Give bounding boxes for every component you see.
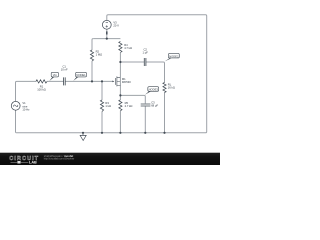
resistor R4 bbox=[119, 42, 122, 53]
node supply T junction bbox=[106, 38, 108, 40]
node R5 rail junction bbox=[119, 132, 121, 134]
wire R2 column bbox=[92, 39, 93, 82]
resistor R3 bbox=[100, 100, 103, 112]
node drain junction bbox=[119, 61, 121, 63]
flag NODE2 bbox=[165, 58, 172, 61]
wire drain branch to C2 bbox=[120, 61, 144, 63]
resistor R5 bbox=[119, 100, 122, 111]
node R3/signal junction bbox=[101, 80, 103, 82]
svg-text:2.7 kΩ: 2.7 kΩ bbox=[125, 104, 133, 108]
svg-text:Vin: Vin bbox=[53, 73, 58, 77]
svg-text:1 kΩ: 1 kΩ bbox=[105, 104, 111, 108]
resistor R1 bbox=[36, 80, 47, 83]
svg-text:NODE2: NODE2 bbox=[169, 54, 179, 58]
resistor R2 bbox=[90, 50, 93, 61]
svg-text:10 Hz: 10 Hz bbox=[22, 107, 30, 111]
wire C2 to NODE2 corner down to RL bbox=[146, 62, 165, 83]
svg-text:NODE3: NODE3 bbox=[149, 88, 159, 92]
wire R5 bottom to rail bbox=[119, 111, 121, 133]
wire R4/drain column bbox=[119, 53, 121, 78]
resistor RL bbox=[163, 83, 166, 93]
node C3 rail junction bbox=[144, 132, 146, 134]
svg-text:NODE1: NODE1 bbox=[76, 73, 86, 77]
watermark bar bbox=[0, 153, 220, 165]
wire RL bottom to rail bbox=[164, 93, 166, 133]
svg-text:IRF530: IRF530 bbox=[122, 80, 131, 84]
wire supply node horizontal bbox=[93, 38, 120, 40]
wire signal line mid segment bbox=[47, 80, 63, 82]
wire V3 bottom stem bbox=[106, 29, 108, 38]
node R3 rail junction bbox=[101, 132, 103, 134]
V3 terminal blob bbox=[106, 31, 108, 34]
node source junction bbox=[119, 94, 121, 96]
svg-text:100 kΩ: 100 kΩ bbox=[37, 88, 46, 92]
capacitor C1 bbox=[64, 77, 66, 85]
wire bottom rail bbox=[17, 132, 206, 134]
ground bbox=[80, 133, 86, 141]
source V1 bbox=[11, 101, 20, 110]
source V3 bbox=[102, 20, 111, 29]
svg-text:1 μF: 1 μF bbox=[142, 50, 148, 54]
mosfet M1 bbox=[114, 78, 116, 85]
wire M1 source column bbox=[119, 85, 121, 100]
wire signal line right segment to gate bbox=[66, 80, 113, 82]
node ground junction bbox=[82, 132, 84, 134]
svg-text:10 nF: 10 nF bbox=[61, 67, 68, 71]
watermark logo wire bbox=[11, 161, 29, 163]
wire source branch to C3 bbox=[120, 95, 145, 103]
wire top loop bbox=[107, 15, 207, 133]
wire signal line left segment + V1 column bbox=[16, 81, 37, 132]
capacitor C3 bbox=[141, 104, 151, 106]
svg-text:16 kΩ: 16 kΩ bbox=[168, 86, 175, 90]
capacitor C2 bbox=[144, 58, 146, 66]
wire R3 column bbox=[101, 81, 103, 132]
svg-text:20 V: 20 V bbox=[113, 23, 119, 27]
svg-text:shahidhussain / mosfet: shahidhussain / mosfet bbox=[44, 154, 73, 158]
flag Vin bbox=[49, 77, 54, 81]
svg-text:4.7 kΩ: 4.7 kΩ bbox=[124, 46, 132, 50]
mosfet M1 gate arrowhead bbox=[112, 81, 114, 83]
node RL rail junction bbox=[163, 132, 165, 134]
node R2/signal junction bbox=[91, 80, 93, 82]
svg-text:68 μF: 68 μF bbox=[151, 104, 158, 108]
svg-text:LAB: LAB bbox=[29, 161, 37, 165]
wire C3 bottom to rail bbox=[144, 106, 146, 132]
svg-text:1 MΩ: 1 MΩ bbox=[96, 53, 103, 57]
flag NODE1 bbox=[73, 77, 78, 81]
svg-text:http://circuitlab.com/c8zwzbwr: http://circuitlab.com/c8zwzbwr bbox=[44, 158, 75, 161]
flag NODE3 bbox=[145, 91, 151, 94]
